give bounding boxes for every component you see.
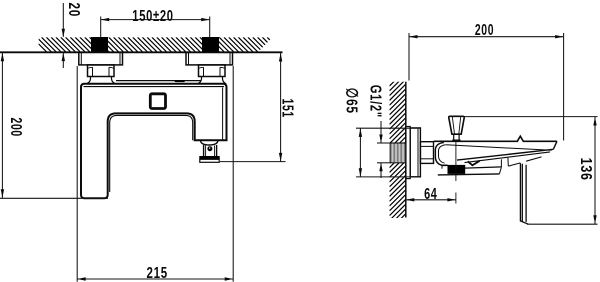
escutcheon flange side: [410, 128, 420, 177]
svg-text:G1/2": G1/2": [367, 85, 386, 118]
body top edge between collars: [116, 80, 201, 82]
threaded pipe: [390, 143, 406, 163]
svg-text:200: 200: [475, 21, 494, 39]
spout inner top highlight: [446, 145, 552, 151]
outlet bowl under right column: [201, 141, 218, 145]
black dash marker on top edge: [175, 80, 185, 82]
dim 200 (left height): [1, 52, 3, 198]
valve left step: [442, 165, 448, 169]
extension line at handle bottom: [0, 197, 108, 199]
svg-text:136: 136: [577, 158, 595, 181]
lower slant D left: [508, 163, 520, 166]
stem centerline: [455, 140, 457, 181]
left collar under nut: [86, 77, 115, 84]
right inlet pipe (black): [202, 37, 219, 52]
outlet bottom cap dark band: [199, 156, 219, 159]
knob stem: [454, 134, 459, 140]
right collar under nut: [197, 77, 226, 84]
dim 20 (wall thickness): [62, 3, 64, 37]
hook V under spout: [468, 161, 480, 166]
svg-text:215: 215: [147, 263, 168, 281]
valve body outer contour: [435, 142, 447, 165]
dim diameter 65: [356, 127, 420, 129]
svg-text:151: 151: [279, 99, 297, 118]
right escutcheon flange: [186, 52, 233, 65]
spout underside A: [457, 149, 553, 160]
left view dimension texts: [8, 2, 297, 281]
svg-text:64: 64: [424, 185, 437, 203]
dim 150±20: [100, 17, 102, 38]
notch verticals: [500, 159, 502, 167]
faucet body outline: [81, 84, 227, 199]
dim 136 right: [464, 116, 597, 118]
svg-text:200: 200: [8, 118, 26, 137]
right hex nut: [199, 65, 226, 77]
spout right bevel: [553, 141, 557, 149]
spout underside B: [465, 152, 551, 163]
left hex nut: [88, 65, 115, 77]
valve body inner contour: [439, 145, 446, 164]
outlet bottom cap light band: [200, 159, 219, 162]
body inner highlight lines: [84, 86, 225, 88]
dim 200 top: [408, 33, 410, 81]
left escutcheon flange: [79, 52, 123, 65]
left inlet pipe (black): [91, 37, 108, 52]
svg-text:20: 20: [66, 2, 84, 17]
right view dimension texts: [343, 21, 594, 202]
wall face line: [405, 82, 407, 218]
extension line at outlet bottom: [220, 161, 286, 163]
valve black band: [448, 165, 466, 174]
dim 151 (right height): [280, 53, 282, 162]
escutcheon back plate: [406, 127, 410, 179]
outlet dot: [207, 146, 212, 151]
front drop strip: [520, 163, 528, 224]
diverter knob: [449, 116, 465, 134]
dim 215 (bottom width): [76, 66, 78, 282]
outlet cylinder: [204, 145, 217, 156]
dim G1/2 thread: [377, 142, 390, 144]
svg-text:150±20: 150±20: [132, 6, 173, 25]
wall face line: [0, 51, 283, 53]
dim 64: [406, 199, 456, 201]
hex connector: [420, 142, 433, 164]
lower slant D right: [526, 157, 541, 161]
diverter square button: [150, 94, 165, 109]
bracket bottom line: [438, 174, 500, 175]
svg-text:∅65: ∅65: [343, 88, 361, 114]
bracket right edge: [499, 167, 501, 174]
spout top edge with bump: [434, 136, 558, 141]
bracket top line C: [465, 167, 502, 168]
